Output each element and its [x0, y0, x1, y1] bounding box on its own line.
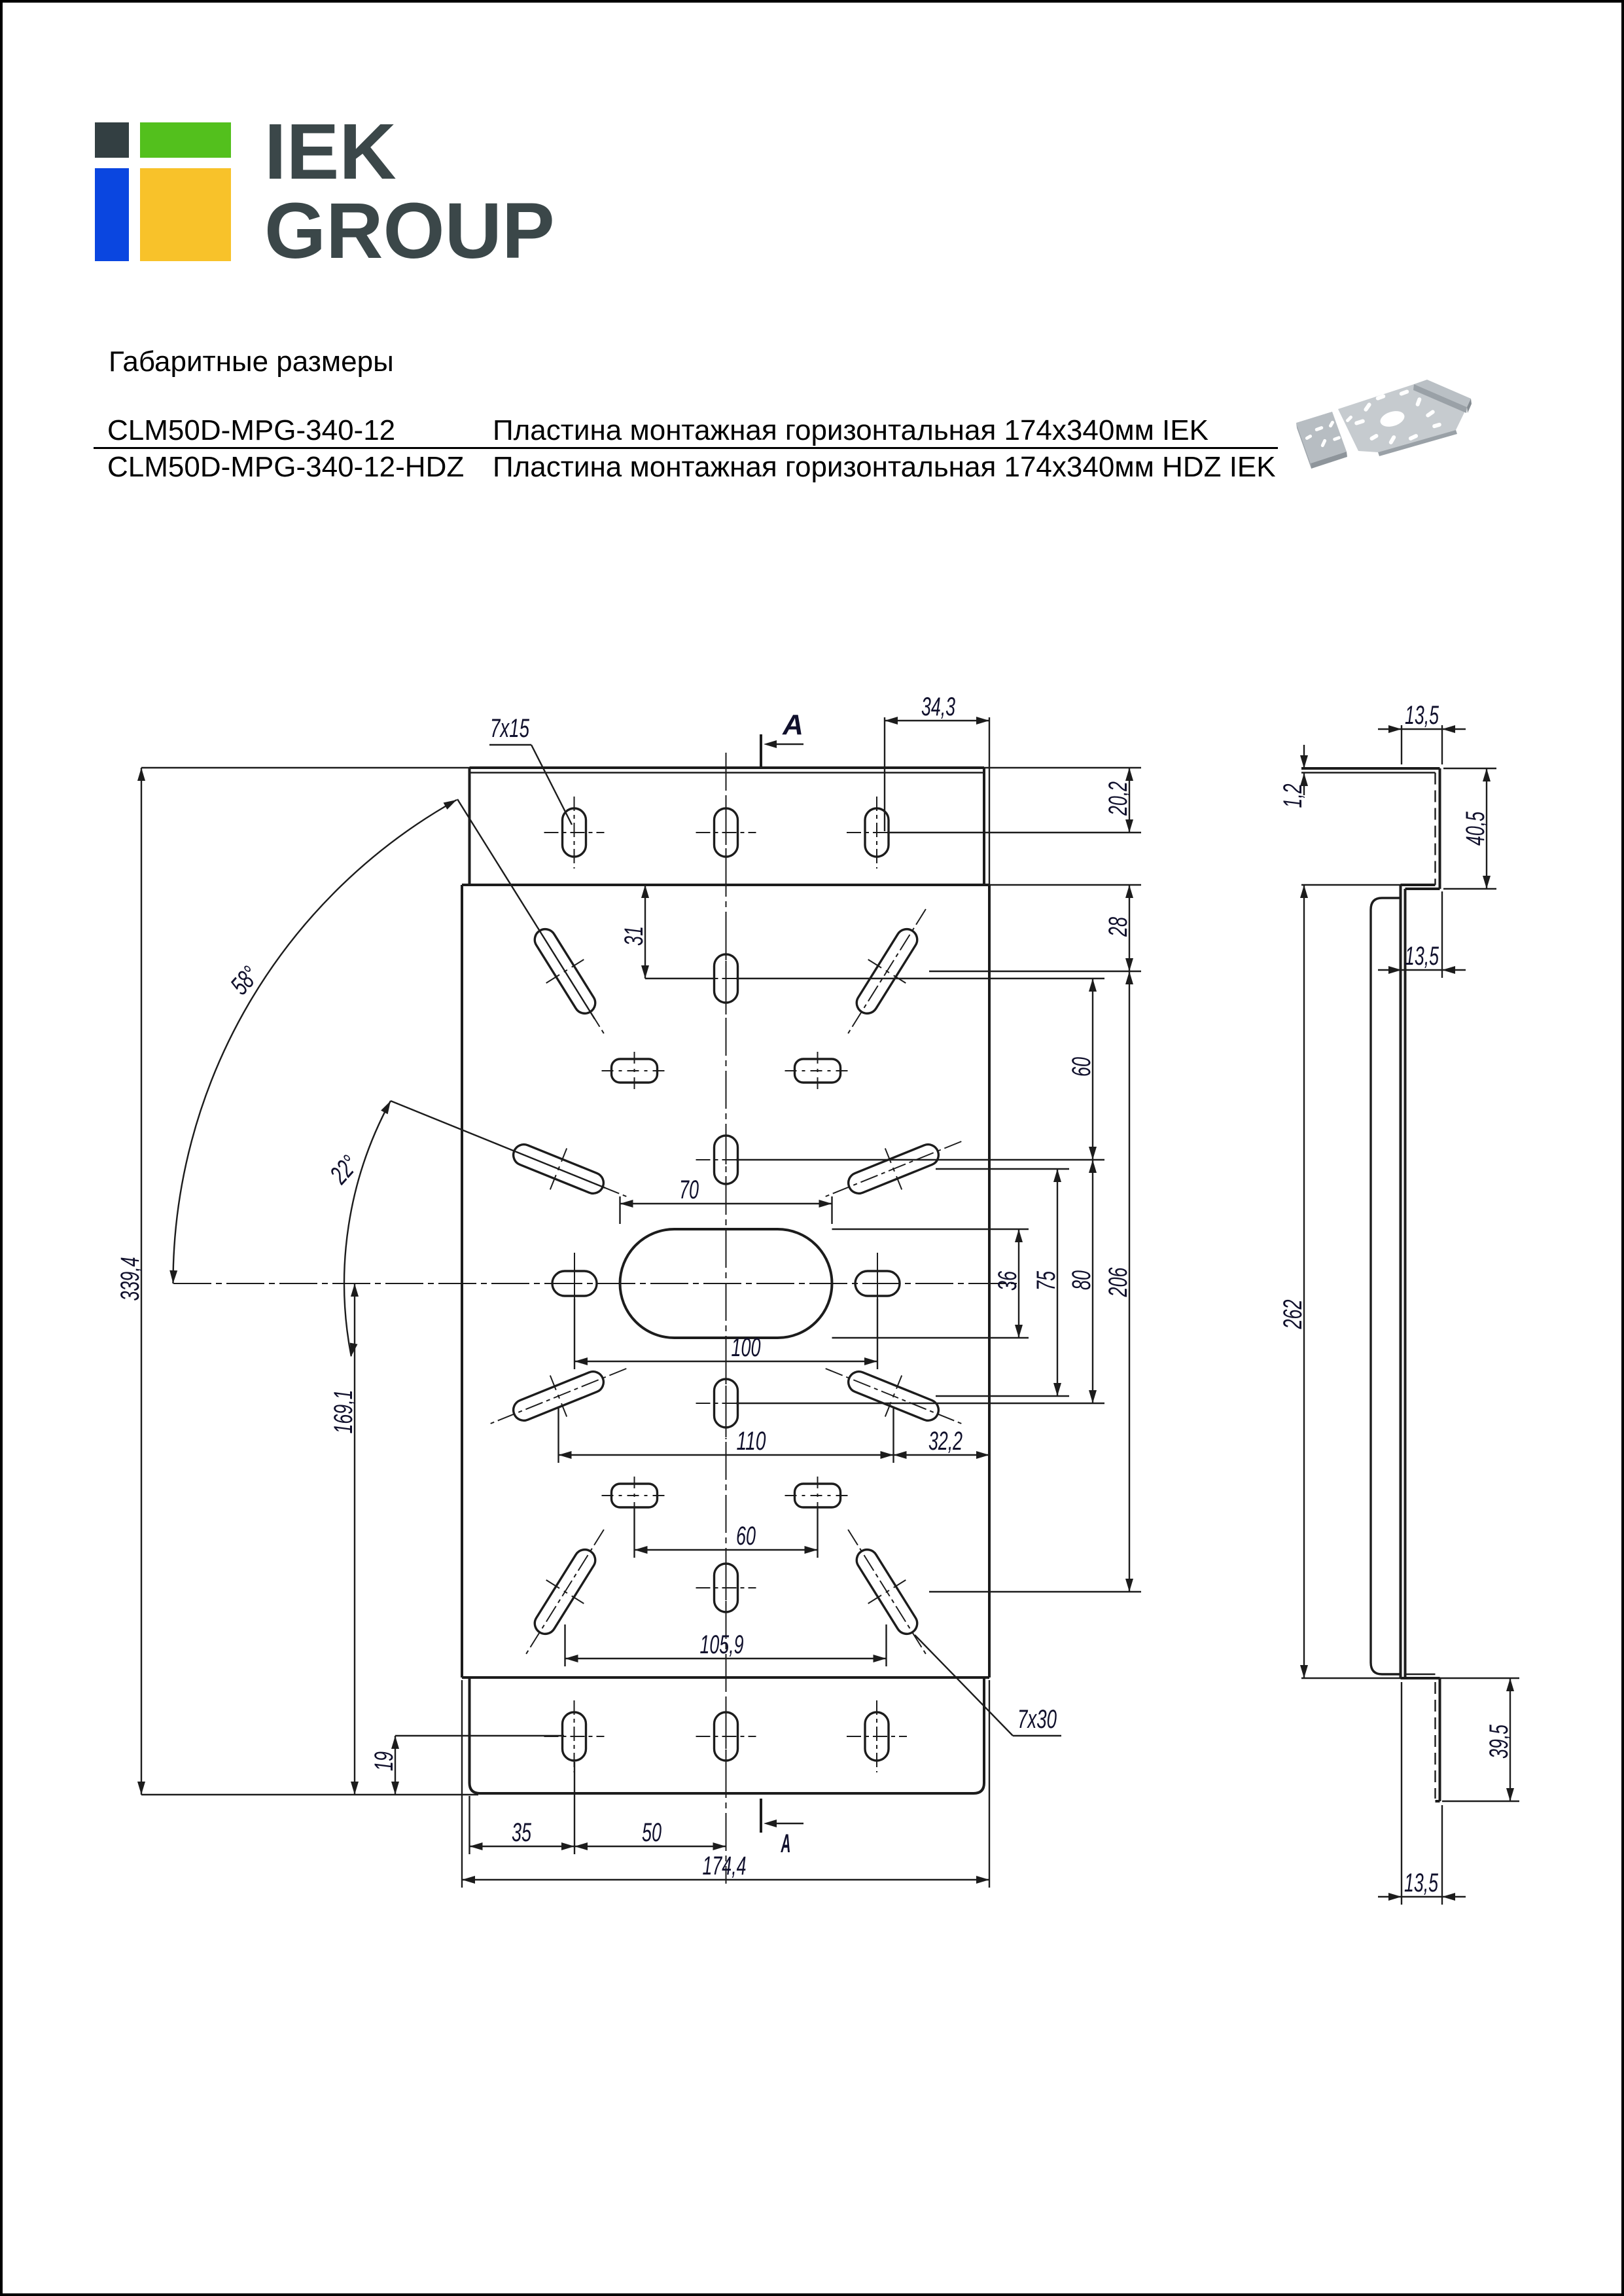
svg-text:110: 110: [737, 1427, 766, 1456]
svg-text:40,5: 40,5: [1461, 812, 1490, 846]
svg-text:20,2: 20,2: [1104, 781, 1133, 816]
svg-text:31: 31: [620, 926, 648, 946]
svg-text:169,1: 169,1: [329, 1390, 358, 1434]
svg-text:A: A: [782, 709, 803, 741]
svg-text:19: 19: [370, 1751, 398, 1771]
svg-text:100: 100: [732, 1333, 761, 1362]
svg-text:36: 36: [993, 1270, 1022, 1291]
svg-text:13,5: 13,5: [1405, 701, 1439, 730]
svg-text:7x30: 7x30: [1017, 1705, 1057, 1734]
svg-text:A: A: [781, 1829, 791, 1858]
svg-text:105,9: 105,9: [700, 1630, 744, 1659]
svg-text:75: 75: [1032, 1270, 1061, 1291]
svg-text:35: 35: [512, 1818, 532, 1847]
svg-text:60: 60: [736, 1522, 756, 1551]
svg-text:339,4: 339,4: [116, 1257, 145, 1301]
svg-text:39,5: 39,5: [1485, 1725, 1513, 1759]
svg-text:70: 70: [679, 1175, 699, 1204]
svg-text:80: 80: [1067, 1270, 1096, 1290]
svg-text:1,2: 1,2: [1279, 784, 1307, 808]
svg-text:28: 28: [1104, 916, 1133, 937]
svg-text:13,5: 13,5: [1404, 1869, 1438, 1897]
svg-text:50: 50: [642, 1818, 662, 1847]
svg-text:13,5: 13,5: [1405, 942, 1439, 971]
svg-text:206: 206: [1104, 1267, 1133, 1297]
svg-text:34,3: 34,3: [921, 692, 955, 721]
svg-text:262: 262: [1279, 1300, 1307, 1330]
svg-text:7x15: 7x15: [490, 714, 530, 743]
svg-text:174,4: 174,4: [703, 1852, 747, 1880]
svg-text:58°: 58°: [225, 961, 264, 1000]
svg-text:60: 60: [1067, 1057, 1096, 1077]
svg-text:32,2: 32,2: [928, 1427, 962, 1456]
